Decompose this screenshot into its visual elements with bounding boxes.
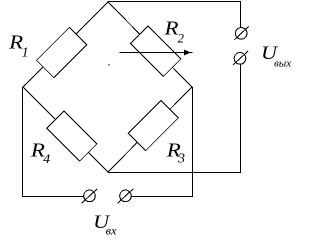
svg-text:2: 2	[178, 30, 185, 45]
svg-text:3: 3	[177, 152, 185, 167]
svg-text:4: 4	[43, 151, 51, 166]
svg-text:вх: вх	[106, 223, 118, 237]
svg-text:вых: вых	[274, 58, 291, 70]
svg-text:R: R	[163, 18, 178, 40]
svg-text:1: 1	[22, 45, 29, 60]
